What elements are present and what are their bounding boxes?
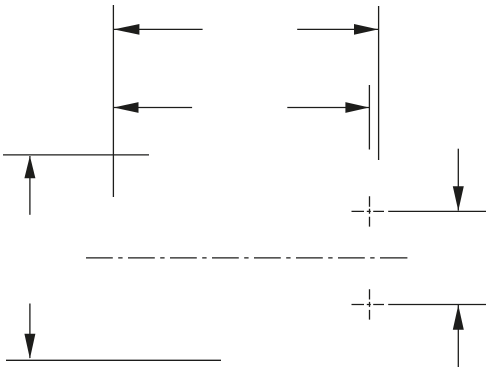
extension line left (x=113.4) <box>112 5 114 197</box>
object bottom line (y=360.3) <box>6 359 221 361</box>
arrowhead top right <box>354 24 378 35</box>
center mark upper horizontal dashes (y=211.4) <box>352 210 385 212</box>
object top line left (y=154.9) <box>3 154 149 156</box>
dimension line second row left segment (y=107.5) <box>114 107 193 109</box>
dimension line right vertical lower (x=458.3) <box>457 305 459 367</box>
center mark upper vertical dashes (x=369.5, cy=211.4) <box>369 196 371 226</box>
arrowhead right vertical up <box>453 305 464 330</box>
leader line lower (y=304.5) <box>388 304 486 306</box>
dimension line left vertical upper segment (x=29.9) <box>29 156 31 215</box>
arrowhead right vertical down <box>453 186 464 211</box>
dimension line left vertical lower segment (x=29.9) <box>29 304 31 359</box>
extension line right outer (x=378.6) <box>378 6 380 160</box>
arrowhead second row left <box>114 102 139 113</box>
main centerline dash-dot (y=257.9) <box>86 257 407 259</box>
arrowhead second row right <box>345 102 369 113</box>
dimension line right vertical upper (x=458.3) <box>457 149 459 211</box>
arrowhead left vertical up <box>24 156 35 178</box>
leader line upper (y=211.4) <box>388 210 486 212</box>
extension line right inner (x=369.4) <box>368 85 370 150</box>
dimension line top right segment (y=29.4) <box>297 28 378 30</box>
dimension line top left segment (y=29.4) <box>114 28 203 30</box>
center mark lower vertical dashes (x=369.5, cy=304.5) <box>369 289 371 319</box>
center mark lower horizontal dashes (y=304.5) <box>352 304 385 306</box>
arrowhead top left <box>114 24 140 35</box>
dimension line second row right segment (y=107.5) <box>287 107 369 109</box>
arrowhead left vertical down <box>24 334 35 359</box>
